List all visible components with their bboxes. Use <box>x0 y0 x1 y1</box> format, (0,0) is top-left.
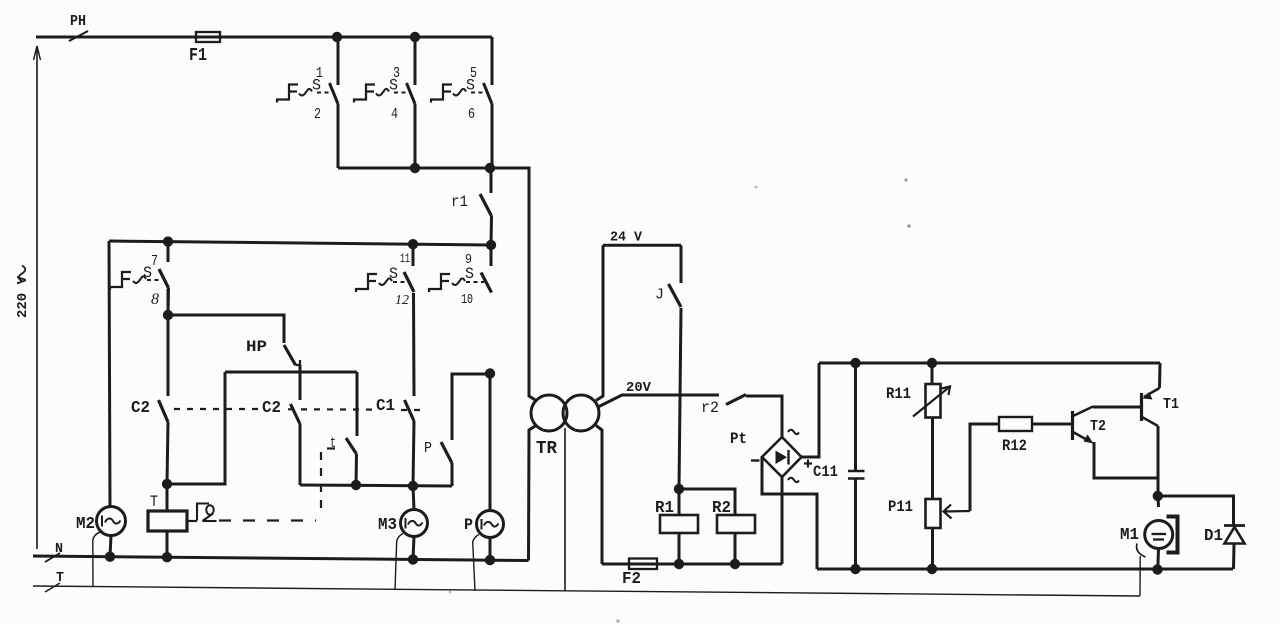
P11 wiper arrow <box>944 505 971 519</box>
wire t branch <box>356 372 359 436</box>
pin number 8 <box>151 291 159 308</box>
junction minus C11 <box>850 564 860 574</box>
label HP <box>246 338 267 356</box>
label S of S3-4 <box>389 77 398 95</box>
wire R11 top lead <box>931 363 934 384</box>
wire HP branch <box>168 315 284 343</box>
switch S5-6 actuator squiggle <box>453 89 466 96</box>
relay coil T <box>148 511 187 531</box>
switch S9-10 blade <box>481 273 492 293</box>
contactor C2 first blade <box>159 400 169 422</box>
svg-text:C11: C11 <box>813 463 838 481</box>
wire T coil top <box>166 484 169 511</box>
junction control bus S11 <box>408 239 418 249</box>
wire S3-4 bottom <box>414 104 417 168</box>
junction minus M1 <box>1152 564 1162 574</box>
scan speck 2 <box>449 591 620 623</box>
motor M3 frame arc <box>397 534 403 542</box>
wire T2 collector to T1 base <box>1093 406 1140 409</box>
motor M3 symbol <box>406 518 423 529</box>
junction N T-coil <box>162 552 172 562</box>
switch S9-10 actuator link <box>466 281 484 283</box>
svg-text:R1: R1 <box>655 499 674 518</box>
node N terminal tick <box>45 553 60 562</box>
svg-text:D1: D1 <box>1204 527 1223 546</box>
svg-text:10: 10 <box>461 292 473 308</box>
switch S5-6 actuator F <box>431 85 452 103</box>
wire phase bus PH <box>36 36 492 39</box>
junction minus P11 <box>927 564 937 574</box>
label P motor <box>464 516 473 534</box>
R11 arrow <box>913 387 950 417</box>
wire T2 emitter down <box>1094 442 1159 478</box>
junction group bus S3-4 <box>410 163 420 173</box>
svg-text:M2: M2 <box>76 515 95 534</box>
wire wiper to R12 <box>970 424 999 511</box>
wire M3 bottom <box>413 537 414 560</box>
scan speck 1 <box>904 178 910 227</box>
wire R1 top <box>678 489 681 515</box>
svg-text:r2: r2 <box>701 399 719 417</box>
label R11 <box>886 385 911 403</box>
label S of S5-6 <box>466 77 475 95</box>
switch S1-2 blade <box>330 83 339 104</box>
wire J bottom <box>679 308 681 489</box>
junction T coil node <box>162 479 172 489</box>
wire C1 top <box>412 293 416 396</box>
scan speck 3 <box>755 186 758 189</box>
label PH <box>70 13 86 30</box>
svg-text:9: 9 <box>465 252 472 268</box>
label C2 second <box>262 399 281 418</box>
junction t node <box>351 480 361 490</box>
svg-text:P: P <box>464 516 473 534</box>
motor M3 circle <box>401 510 428 537</box>
switch S9-10 actuator squiggle <box>452 278 465 285</box>
wire secondary bottom to common <box>596 426 602 565</box>
svg-text:r1: r1 <box>451 193 468 211</box>
wire M1 top lead <box>1157 496 1161 507</box>
switch P blade <box>441 442 452 463</box>
wire J top <box>680 245 683 283</box>
junction M3 node <box>408 481 418 491</box>
pin number 3 of S3-4 <box>393 65 400 82</box>
pin number 7 <box>151 253 158 270</box>
node T terminal tick <box>45 583 60 592</box>
label C2 first <box>131 399 150 418</box>
wire r1 bottom <box>490 216 494 245</box>
earth leader M2 <box>92 540 94 586</box>
label plus <box>804 460 812 468</box>
junction N P <box>485 555 495 565</box>
svg-text:R11: R11 <box>886 385 911 403</box>
label r2 <box>701 399 719 417</box>
transistor T2 collector <box>1073 407 1093 417</box>
label P switch <box>424 440 432 457</box>
wire 20V tap <box>598 395 719 407</box>
svg-text:Pt: Pt <box>730 430 747 448</box>
label r1 <box>451 193 468 211</box>
label F2 <box>622 570 641 589</box>
wire S11-12 top <box>412 244 415 266</box>
wire common bus F2 <box>602 563 782 566</box>
wire secondary top to 24V <box>596 245 603 400</box>
switch HP blade <box>284 345 296 365</box>
label D1 <box>1204 527 1223 546</box>
wire left riser to M2 <box>109 241 110 507</box>
switch S5-6 actuator link <box>471 92 486 94</box>
pin number 5 of S5-6 <box>470 65 477 82</box>
rectifier bridge Pt <box>762 437 802 477</box>
pin number 4 of S3-4 <box>391 106 398 123</box>
label S of S7-8 <box>143 264 152 282</box>
svg-text:3: 3 <box>393 65 400 82</box>
label N <box>55 541 63 557</box>
junction P motor node <box>485 368 495 378</box>
label T coil <box>150 493 158 511</box>
label ~ bottom <box>788 478 799 482</box>
label C11 <box>813 463 838 481</box>
motor P circle <box>477 511 504 538</box>
pin number 12 <box>395 293 409 308</box>
svg-text:HP: HP <box>246 338 267 356</box>
wire S9-10 top <box>490 245 493 266</box>
diode D1 <box>1224 526 1245 544</box>
motor M2 symbol <box>102 516 121 527</box>
label T earth <box>56 570 64 586</box>
label t <box>330 435 336 452</box>
motor M2 frame arc <box>93 532 100 540</box>
thermal element theta <box>197 504 217 522</box>
label R2 <box>712 499 731 518</box>
wire bridge plus output <box>802 363 820 457</box>
svg-text:T: T <box>56 570 64 586</box>
fuse F1 <box>196 32 220 42</box>
svg-text:F1: F1 <box>189 46 207 66</box>
wire C1 bottom <box>413 421 414 486</box>
wire distribution bus <box>225 371 357 374</box>
mechanical link C2 C2 C1 dashed <box>174 409 421 410</box>
bridge diode symbol <box>776 450 789 465</box>
wire D1 bottom lead <box>1232 544 1236 570</box>
switch S3-4 actuator link <box>394 92 409 94</box>
svg-text:C1: C1 <box>376 397 395 416</box>
wire switch group bottom bus <box>338 167 529 170</box>
wire R12 to T2 base <box>1032 423 1071 426</box>
svg-text:C2: C2 <box>131 399 150 418</box>
switch S11-12 blade <box>404 272 414 292</box>
node PH phase terminal tick <box>69 31 88 41</box>
svg-text:M1: M1 <box>1120 526 1139 545</box>
mechanical link t dashed <box>219 449 335 521</box>
junction common R1 <box>674 559 684 569</box>
svg-text:4: 4 <box>391 106 398 123</box>
label T1 <box>1163 396 1179 413</box>
svg-text:8: 8 <box>151 291 159 308</box>
pin number 2 of S1-2 <box>314 106 321 123</box>
svg-text:1: 1 <box>316 65 323 82</box>
svg-text:24 V: 24 V <box>610 231 643 246</box>
resistor R12 <box>999 417 1032 431</box>
svg-text:J: J <box>655 287 664 304</box>
wire bus to S5 corner <box>491 37 494 82</box>
wire C2a bottom <box>167 422 168 484</box>
potentiometer P11 <box>926 499 941 528</box>
wire bridge minus output <box>762 457 817 569</box>
earth leader M1 <box>1139 556 1141 596</box>
relay contact r1 blade <box>480 194 492 216</box>
switch S11-12 actuator squiggle <box>379 278 392 285</box>
wire bridge AC bottom <box>781 477 784 564</box>
junction group bus S5-6 <box>485 163 495 173</box>
wire earth line T <box>33 586 1140 596</box>
wire DC minus rail <box>817 568 1233 571</box>
switch S11-12 actuator link <box>393 281 407 283</box>
wire P switch bottom <box>451 463 454 486</box>
switch S1-2 actuator link <box>317 92 332 94</box>
svg-text:C2: C2 <box>262 399 281 418</box>
wire TR center tap to earth <box>564 428 566 591</box>
wire P switch branch <box>452 374 490 440</box>
pin number 1 of S1-2 <box>316 65 323 82</box>
wire motor feed bus <box>300 485 452 486</box>
wire R1 bottom <box>678 533 681 564</box>
earth leader P <box>473 542 475 591</box>
label P11 <box>888 498 913 516</box>
wire t bottom <box>355 454 359 485</box>
switch S3-4 actuator squiggle <box>376 89 389 96</box>
wire primary riser <box>490 168 536 401</box>
label ~ top <box>788 430 799 434</box>
svg-text:12: 12 <box>395 293 409 308</box>
label TR <box>536 439 557 459</box>
relay contact r2 blade <box>726 395 746 405</box>
transistor T2 base bar <box>1071 411 1074 440</box>
switch S11-12 actuator F <box>356 274 377 292</box>
switch S5-6 blade <box>484 83 493 104</box>
wire C11 bottom lead <box>854 479 857 569</box>
motor M1 brush bracket <box>1167 517 1178 553</box>
svg-text:S: S <box>389 265 398 283</box>
wire 24V rail <box>603 244 681 247</box>
junction N M3 <box>408 554 418 564</box>
junction M1 D1 node <box>1153 491 1163 501</box>
wire r2 to bridge <box>746 396 782 437</box>
wire S3-4 top <box>414 37 417 85</box>
svg-text:N: N <box>55 541 63 557</box>
svg-text:2: 2 <box>314 106 321 123</box>
timer contact t blade <box>346 438 357 454</box>
motor P frame arc <box>473 535 479 543</box>
svg-text:P: P <box>424 440 432 457</box>
junction R1 R2 node <box>674 484 684 494</box>
wire C2a top <box>167 315 170 396</box>
switch S7-8 blade <box>159 269 169 288</box>
transformer TR primary circle <box>531 395 567 431</box>
dimension arrow 220V line <box>34 46 41 549</box>
wire node to D1 <box>1158 496 1234 525</box>
label R1 <box>655 499 674 518</box>
fuse F2 <box>629 559 657 570</box>
svg-text:6: 6 <box>468 106 475 123</box>
wire primary return <box>529 426 537 561</box>
switch S9-10 actuator F <box>429 274 450 292</box>
switch S7-8 actuator link <box>147 279 162 281</box>
label 24 V <box>610 231 643 246</box>
wire R11 to P11 <box>931 418 934 500</box>
label minus <box>751 459 760 461</box>
contactor C1 blade <box>405 400 415 421</box>
switch S3-4 actuator F <box>354 85 375 103</box>
label J <box>655 287 664 304</box>
svg-text:TR: TR <box>536 439 557 459</box>
wire S1-2 bottom <box>337 104 340 168</box>
junction plus C11 <box>850 358 860 368</box>
wire S5-6 top <box>491 82 494 85</box>
svg-text:T1: T1 <box>1163 396 1179 413</box>
svg-text:11: 11 <box>400 251 410 266</box>
junction top bus S3 <box>410 32 420 42</box>
label F1 <box>189 46 207 66</box>
wire T coil bottom <box>166 531 169 558</box>
label C1 <box>376 397 395 416</box>
svg-text:R12: R12 <box>1002 437 1027 455</box>
junction plus R11 <box>927 358 937 368</box>
junction common R2 <box>730 559 740 569</box>
switch S7-8 actuator squiggle <box>133 276 146 283</box>
switch S3-4 blade <box>407 83 416 104</box>
wire T1 collector down <box>1157 426 1160 496</box>
svg-text:F2: F2 <box>622 570 641 589</box>
wire R2 bottom <box>734 533 737 564</box>
relay contact J blade <box>669 284 682 307</box>
junction top bus S1 <box>332 32 342 42</box>
wire C2b top <box>299 372 302 400</box>
motor M1 DC symbol <box>1152 534 1167 540</box>
wire M1 bottom lead <box>1156 549 1160 570</box>
svg-text:PH: PH <box>70 13 86 30</box>
switch S1-2 actuator F <box>277 85 298 103</box>
resistor R2 <box>717 515 755 533</box>
wire S7-8 top <box>167 242 170 262</box>
wire HP fixed contact hook <box>296 360 301 365</box>
wire C2b bottom <box>299 424 302 485</box>
wire C11 top lead <box>854 363 857 471</box>
pin number 6 of S5-6 <box>468 106 475 123</box>
transistor T1 emitter <box>1143 388 1160 400</box>
transformer TR secondary circle <box>563 395 599 431</box>
label S of S1-2 <box>312 77 321 95</box>
pin number 9 <box>465 252 472 268</box>
svg-text:7: 7 <box>151 253 158 270</box>
switch S7-8 actuator F <box>110 272 131 290</box>
junction HP tee <box>163 310 173 320</box>
label M1 <box>1120 526 1139 545</box>
wire control bus <box>109 241 491 245</box>
label M2 <box>76 515 95 534</box>
transistor T1 base bar <box>1140 393 1143 421</box>
pin number 11 <box>400 251 410 266</box>
svg-text:R2: R2 <box>712 499 731 518</box>
wire S1-2 top <box>337 37 340 85</box>
svg-text:T2: T2 <box>1090 418 1106 435</box>
capacitor C11 plates <box>848 471 865 479</box>
wire P motor top <box>489 374 492 511</box>
transistor T2 emitter <box>1073 432 1094 444</box>
label S of S9-10 <box>465 265 474 283</box>
wire M2 bottom <box>110 536 111 558</box>
variable resistor R11 <box>926 384 941 418</box>
svg-text:220 V: 220 V <box>16 275 31 318</box>
motor M1 circle <box>1145 521 1173 549</box>
motor M1 frame arc <box>1137 544 1146 558</box>
wire T1 emitter from rail <box>1158 363 1162 388</box>
junction control bus S7 <box>163 236 173 246</box>
svg-text:T: T <box>150 493 158 511</box>
junction control bus S9 r1 <box>486 240 496 250</box>
label S of S11-12 <box>389 265 398 283</box>
wire left branch down <box>167 372 225 484</box>
contactor C2 second blade <box>291 404 301 424</box>
earth leader M3 <box>395 541 397 590</box>
svg-text:P11: P11 <box>888 498 913 516</box>
switch S1-2 actuator squiggle <box>299 89 312 96</box>
wire P motor bottom <box>489 538 492 561</box>
label 220 V ~ <box>16 266 31 319</box>
label Pt <box>730 430 747 448</box>
junction N M2 <box>105 552 115 562</box>
wire M3 top <box>413 486 414 510</box>
pin number 10 <box>461 292 473 308</box>
wire S8 to HP tee <box>167 289 170 315</box>
wire S7-8 bottom <box>167 288 171 315</box>
label T2 <box>1090 418 1106 435</box>
wire S5-6 bottom <box>491 104 494 168</box>
svg-text:5: 5 <box>470 65 477 82</box>
wire r1 top <box>490 168 493 193</box>
wire P11 bottom lead <box>931 528 934 569</box>
label R12 <box>1002 437 1027 455</box>
label 20V <box>626 380 652 396</box>
transistor T1 collector <box>1142 417 1158 426</box>
wire neutral bus N <box>33 556 529 561</box>
wire DC plus rail <box>819 362 1160 365</box>
motor M2 circle <box>97 507 126 536</box>
label M3 <box>378 516 397 535</box>
wire T coil right <box>187 520 197 522</box>
wire HP to distribution tee <box>299 365 302 372</box>
wire R1 R2 link <box>679 489 735 515</box>
motor P symbol <box>482 519 499 530</box>
svg-text:M3: M3 <box>378 516 397 535</box>
resistor R1 <box>660 515 698 533</box>
